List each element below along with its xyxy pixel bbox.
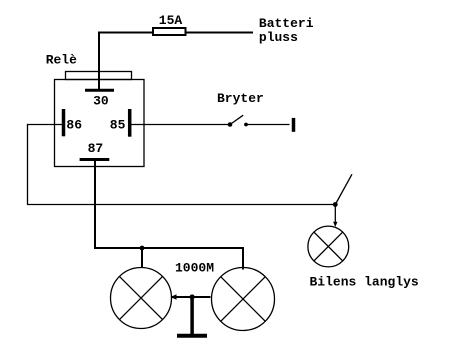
svg-text:Batteri: Batteri [259,16,314,31]
svg-text:87: 87 [88,141,104,156]
svg-text:Relè: Relè [46,53,77,68]
svg-text:85: 85 [110,117,126,132]
svg-text:Bryter: Bryter [217,91,264,106]
svg-text:1000M: 1000M [175,261,214,276]
svg-text:Bilens langlys: Bilens langlys [310,275,419,290]
svg-text:pluss: pluss [259,30,298,45]
svg-text:15A: 15A [159,13,183,28]
svg-text:86: 86 [66,117,82,132]
svg-text:30: 30 [93,94,109,109]
